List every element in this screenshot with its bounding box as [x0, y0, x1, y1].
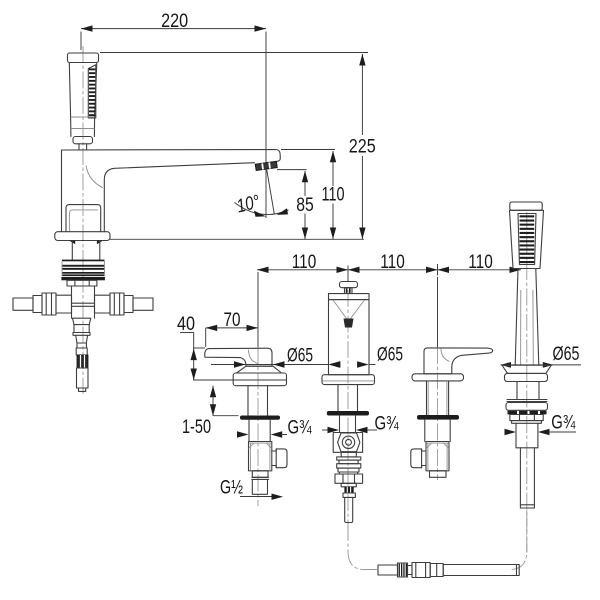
right supply arm: [95, 295, 111, 313]
comp4 hex band: [512, 421, 542, 424]
shower holder clip: [73, 137, 93, 144]
comp1 threaded shank G3/4: [248, 420, 250, 442]
G1/2 leader: [240, 496, 272, 498]
comp4 collar bar: [506, 403, 548, 411]
angle arc: [235, 203, 289, 215]
svg-text:Ø65: Ø65: [377, 345, 403, 366]
dim 70 extension left: [205, 328, 207, 347]
hose centerline from diverter: [348, 524, 377, 570]
svg-text:220: 220: [161, 11, 188, 32]
comp1 flange: [233, 373, 286, 386]
svg-text:225: 225: [349, 137, 376, 158]
comp4 long tube: [516, 447, 538, 449]
lock nut washer (dark): [61, 277, 105, 280]
dim 1-50: [212, 386, 214, 416]
hand shower spray face ribs: [88, 65, 96, 118]
dim 220 extension right / spout tip centerline: [265, 32, 267, 219]
comp1 lever handle: [205, 348, 272, 366]
comp2 funnel: [333, 300, 347, 319]
spout inner fillet (light): [86, 166, 103, 188]
comp4 holder flange dimension line Ø65: [501, 364, 582, 366]
svg-text:G½: G½: [220, 478, 243, 499]
comp4 G3/4 arrows: [505, 429, 517, 435]
label 10deg: [235, 191, 263, 217]
dim 220: [81, 28, 266, 30]
comp2 hexagon: [338, 433, 360, 452]
deck flange: [55, 232, 110, 241]
comp2 hex valve body: [333, 433, 362, 453]
svg-text:1-50: 1-50: [182, 417, 211, 438]
comp3 lever handle: [424, 348, 493, 374]
faucet body and spout top outline: [62, 150, 281, 232]
comp2 lower flange (dark): [327, 411, 369, 416]
dim 40 extension bottom: [193, 379, 287, 381]
dim 110 vertical: [332, 151, 334, 186]
dim 225: [361, 54, 363, 135]
hose connector block: [412, 563, 430, 578]
comp2 cap band: [329, 294, 370, 300]
comp4 spray ribs: [518, 214, 536, 265]
svg-text:110: 110: [322, 185, 345, 206]
lock nut thread bars: [62, 260, 105, 262]
comp4 head cap: [510, 202, 542, 210]
hose nipple tube: [378, 565, 398, 575]
tick comp3: [437, 264, 439, 276]
svg-text:85: 85: [296, 195, 314, 216]
comp3 lower flange (dark): [417, 415, 459, 420]
comp2 thread block (dark): [344, 487, 353, 493]
dim 85 extension: [277, 169, 307, 171]
comp1 centerline: [257, 272, 259, 347]
comp2 tick/stem: [347, 266, 349, 282]
comp1 G3/4 arrows: [237, 431, 249, 437]
deck line: [110, 238, 364, 240]
svg-text:110: 110: [380, 252, 405, 273]
handle plate inner line: [69, 210, 98, 232]
cross valve central column: [71, 286, 73, 318]
comp3 centerline: [437, 277, 439, 347]
comp3 tail nut: [430, 471, 447, 478]
dim 220 extension left: [80, 32, 82, 51]
hand shower head cap (on faucet): [68, 53, 99, 63]
comp1 valve body: [249, 442, 272, 471]
tail below cross: [73, 318, 91, 324]
comp4 thread dash band (dark): [508, 411, 518, 415]
comp2 hex nut: [335, 474, 363, 483]
hose neck: [408, 566, 413, 575]
faucet front handle plate: [66, 205, 101, 232]
arc arrowhead right: [277, 208, 288, 215]
comp2 knob stem: [345, 288, 353, 294]
comp3 valve body: [426, 442, 449, 471]
comp2 threaded shank: [339, 416, 341, 433]
comp3 flange: [412, 374, 464, 381]
svg-text:110: 110: [468, 252, 493, 273]
comp3 side port left: [411, 449, 426, 468]
comp1 tail nut: [252, 471, 268, 478]
comp2 centerline: [347, 290, 349, 540]
svg-text:G¾: G¾: [375, 414, 400, 435]
comp4 threaded column: [515, 423, 517, 448]
hex nut below washer: [67, 280, 97, 286]
comp2 Ø65 arrows (inside body): [329, 361, 341, 367]
comp4 holder flange: [502, 365, 551, 373]
dim 110 extension: [281, 149, 335, 151]
svg-text:70: 70: [224, 310, 241, 331]
end tube: [77, 368, 89, 388]
spout underside: [104, 163, 254, 232]
comp2 G3/4 arrows: [322, 429, 328, 431]
dim 40 leader: [180, 332, 194, 334]
dim 85: [304, 171, 306, 196]
shared Ø65 leader comp1/comp2: [211, 364, 328, 366]
comp2 knob bar: [340, 282, 358, 288]
comp2 funnel cup (dark): [344, 319, 354, 328]
hose step joint: [430, 564, 443, 577]
10 degree tilt line: [267, 170, 274, 214]
dim 225 extension: [100, 52, 368, 54]
aerator outlet (dark): [255, 161, 277, 170]
dim 40: [193, 333, 195, 381]
comp1 lower flange (dark): [240, 416, 280, 420]
comp4 upper column: [516, 382, 518, 400]
comp1 side port right: [272, 449, 287, 468]
hand shower head body: [69, 63, 97, 118]
comp4 washer lines: [507, 399, 547, 401]
svg-text:110: 110: [292, 252, 317, 273]
comp3 shank: [426, 381, 428, 415]
comp2 tail tube: [343, 493, 355, 497]
comp2 shank: [337, 385, 339, 411]
comp3 handle inner curve: [441, 349, 450, 362]
comp2 flange: [322, 375, 375, 385]
threaded nipple (dark): [77, 355, 88, 368]
shower holder stem: [78, 144, 80, 150]
dim 40 extension top: [193, 347, 205, 349]
comp4 handle: [515, 269, 539, 366]
mounting shank: [71, 241, 73, 260]
comp4 centerline: [526, 212, 528, 552]
svg-text:G¾: G¾: [551, 413, 576, 434]
seal wedges under flange: [69, 241, 75, 245]
svg-text:40: 40: [177, 314, 195, 335]
left supply arm: [13, 298, 33, 310]
hose ribs: [398, 563, 408, 577]
comp3 threaded shank: [424, 420, 426, 442]
hand shower handle section: [70, 117, 72, 137]
arc arrowhead left: [254, 211, 266, 217]
svg-text:Ø65: Ø65: [287, 345, 313, 366]
comp1 escutcheon dome: [237, 366, 282, 373]
svg-text:G¾: G¾: [288, 418, 313, 439]
dim row 110/110/110: [257, 269, 521, 271]
comp1 shank: [247, 386, 249, 416]
comp4 head body: [510, 210, 544, 268]
dim 70: [206, 327, 258, 329]
hose centerline from shower tube: [510, 510, 527, 570]
comp1 handle inner curve: [249, 350, 259, 364]
comp2 body: [329, 300, 370, 375]
svg-text:Ø65: Ø65: [553, 344, 580, 365]
comp2 concentric circles: [342, 436, 354, 448]
hose long tube: [443, 565, 519, 576]
comp4 hex nut: [510, 415, 543, 421]
centerline main faucet: [82, 46, 84, 394]
comp1 tail tube: [252, 479, 267, 494]
comp2 tail stack: [341, 452, 356, 457]
